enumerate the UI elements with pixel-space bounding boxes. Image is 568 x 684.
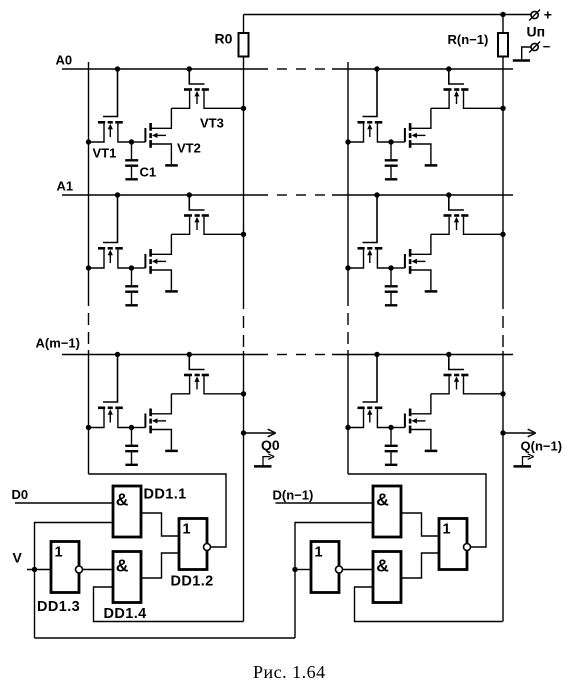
svg-text:DD1.4: DD1.4	[104, 606, 147, 622]
pulse symbol (Q0)	[254, 465, 272, 468]
memory cell (row A0, column n-1)	[345, 66, 505, 179]
wire: − terminal to ground	[522, 47, 531, 59]
wire: V input	[27, 569, 51, 571]
gate right inverter (1)	[311, 542, 339, 593]
wire: V to DD1.1 input 2	[35, 523, 114, 639]
wire: DD1.1 out to DD1.2 in1	[141, 513, 179, 536]
wire: right output inverter to write line	[348, 474, 486, 547]
svg-text:R0: R0	[215, 31, 233, 47]
memory cell (row A1, column 0)	[86, 192, 246, 305]
svg-text:1: 1	[315, 545, 323, 561]
wire: address row A0	[62, 68, 268, 70]
gate DD1.4 (AND)	[113, 552, 141, 603]
svg-text:C1: C1	[140, 165, 157, 180]
svg-text:A0: A0	[56, 53, 73, 68]
svg-text:Q(n−1): Q(n−1)	[521, 439, 563, 454]
wire: DD1.4 out to DD1.2 in2	[141, 553, 179, 578]
wire: Q0 output arrow	[244, 432, 274, 434]
svg-text:A(m−1): A(m−1)	[36, 336, 80, 351]
inversion bubble (right output inverter)	[464, 544, 471, 551]
memory cell (row A(m-1), column 0)	[86, 352, 246, 465]
wire: address row A(m-1)	[62, 354, 268, 356]
gate DD1.2 (inverter)	[179, 519, 207, 570]
svg-text:D0: D0	[12, 487, 29, 502]
svg-text:DD1.1: DD1.1	[144, 487, 187, 503]
svg-text:VT1: VT1	[93, 146, 117, 161]
pulse symbol (Q(n-1))	[514, 465, 532, 468]
wire: right inverter out to right AND-2 in	[343, 569, 374, 571]
svg-text:&: &	[376, 556, 389, 576]
node: Q(n-1) tap on read line	[500, 430, 505, 435]
memory cell (row A(m-1), column n-1)	[345, 352, 505, 465]
terminal +	[531, 11, 538, 18]
svg-text:A1: A1	[57, 179, 74, 194]
wire: D0 input	[15, 502, 113, 504]
svg-text:−: −	[543, 39, 551, 54]
wire: read bit line (column 0)	[243, 57, 245, 310]
svg-text:1: 1	[183, 522, 191, 538]
resistor R(n-1)	[502, 15, 504, 34]
wire: Q(n-1) output arrow	[503, 432, 534, 434]
svg-text:V: V	[13, 550, 23, 566]
wire: read line feedback to right AND-2 in2	[355, 587, 503, 622]
inversion bubble DD1.3	[76, 566, 83, 573]
svg-text:Рис. 1.64: Рис. 1.64	[253, 662, 326, 682]
memory cell VT1-VT3/C1 (row A0, column 0)	[86, 66, 246, 179]
wire: V to right inverter input	[295, 569, 311, 571]
svg-text:&: &	[376, 490, 389, 510]
svg-text:VT3: VT3	[200, 116, 224, 131]
svg-text:1: 1	[443, 522, 451, 538]
node: V junction (right block)	[292, 567, 297, 572]
node: Q0 tap on read line	[241, 430, 246, 435]
wire: DD1.3 out to DD1.4 in	[83, 569, 114, 571]
inversion bubble DD1.2	[204, 544, 211, 551]
svg-text:&: &	[116, 490, 129, 510]
gate right AND-1 (&)	[373, 486, 401, 537]
wire: address row A1	[62, 194, 268, 196]
gate right output inverter (1)	[439, 519, 467, 570]
svg-text:Q0: Q0	[261, 437, 280, 453]
svg-text:VT2: VT2	[177, 141, 201, 156]
svg-text:+: +	[544, 7, 552, 23]
wire: read line feedback to DD1.4 in2	[94, 587, 244, 622]
wire: write bit line (column 0)	[88, 62, 90, 306]
ground (− terminal)	[513, 59, 530, 61]
terminal −	[531, 43, 538, 50]
wire: D(n-1) input	[276, 502, 374, 504]
node: V junction	[32, 567, 37, 572]
wire: DD1.2 out to write line	[89, 474, 227, 547]
gate right AND-2 (&)	[373, 552, 401, 603]
wire: right AND-2 out to right output inverter in2	[401, 553, 439, 578]
svg-text:&: &	[116, 556, 129, 576]
wire: +Un supply rail	[244, 14, 531, 16]
inversion bubble (right inverter)	[336, 566, 343, 573]
svg-text:DD1.2: DD1.2	[171, 574, 214, 590]
memory cell (row A1, column n-1)	[345, 192, 505, 305]
svg-text:R(n−1): R(n−1)	[448, 32, 489, 47]
wire: read bit line (column n-1)	[502, 57, 504, 310]
wire: V to right AND input 2	[295, 523, 373, 639]
gate DD1.1 (AND)	[113, 486, 141, 537]
wire: right AND-1 out to right output inverter in1	[401, 513, 439, 536]
svg-text:Uп: Uп	[527, 24, 546, 40]
gate DD1.3 (inverter)	[51, 542, 79, 593]
node: rail / R(n-1) junction	[500, 12, 505, 17]
resistor R0	[243, 15, 245, 34]
svg-text:1: 1	[55, 545, 63, 561]
svg-text:DD1.3: DD1.3	[37, 599, 80, 615]
wire: V rail to right block	[35, 637, 296, 639]
wire: write bit line (column n-1)	[347, 62, 349, 306]
svg-text:D(n−1): D(n−1)	[273, 488, 314, 503]
